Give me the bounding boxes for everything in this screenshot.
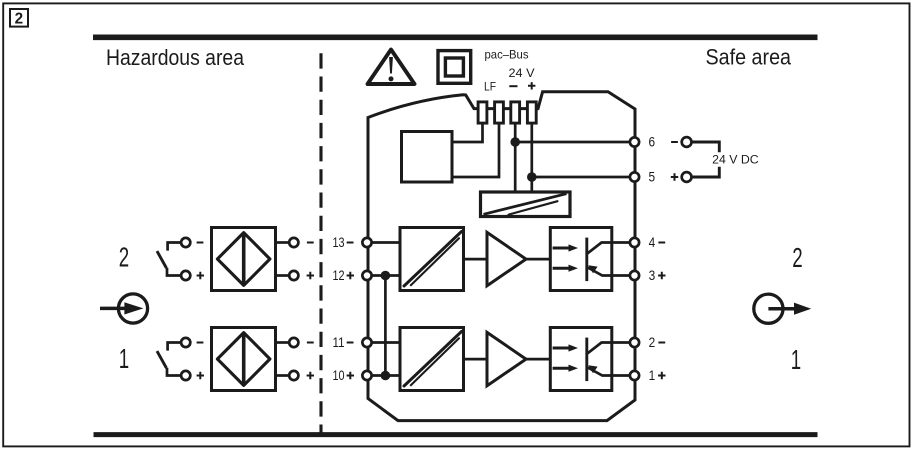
wire sensor out top channel 1	[276, 341, 290, 344]
isolation transformer block channel 2	[400, 228, 464, 291]
svg-text:3: 3	[649, 268, 656, 283]
svg-text:2: 2	[15, 11, 24, 28]
svg-text:Hazardous area: Hazardous area	[106, 45, 245, 70]
wire amplifier to output coupler channel 2	[526, 258, 550, 261]
pac-Bus pin 1	[478, 102, 487, 123]
wire pin4 (24V plus) to supply	[530, 123, 533, 192]
warning triangle symbol	[368, 50, 415, 85]
optocoupler output block channel 1	[550, 328, 612, 391]
output flow symbol (arrow out of circle)	[754, 294, 783, 323]
terminal 11	[362, 338, 371, 347]
light arrow upper channel 2	[553, 247, 570, 250]
wire vertical bus terminal 12 to terminal 10	[384, 276, 387, 376]
wire isolator to amplifier channel 1	[464, 358, 488, 361]
label plus pin 4	[528, 82, 535, 89]
polarity minus sensor out channel 2	[307, 242, 314, 244]
optocoupler output block channel 2	[550, 228, 612, 291]
svg-text:24 V DC: 24 V DC	[712, 154, 759, 166]
polarity plus switch channel 1	[197, 372, 204, 379]
figure number box 2	[10, 9, 28, 27]
svg-text:10: 10	[333, 368, 345, 383]
wire terminal in top to isolator channel 1	[367, 341, 400, 344]
phototransistor base bar channel 1	[585, 338, 588, 382]
terminal 10	[362, 371, 371, 380]
NAMUR sensor block channel 1	[212, 328, 276, 391]
light arrow lower channel 2	[553, 267, 570, 270]
isolator device body outline	[368, 92, 635, 421]
svg-text:2: 2	[792, 242, 802, 273]
wire node to terminal 5	[532, 176, 635, 179]
wire terminal in top to isolator channel 2	[367, 241, 400, 244]
wire collector to terminal channel 2	[587, 243, 635, 254]
svg-text:13: 13	[333, 235, 345, 250]
wire amplifier to output coupler channel 1	[526, 358, 550, 361]
pac-Bus pin 4	[527, 102, 536, 123]
wire emitter to terminal channel 1	[587, 367, 635, 376]
switch terminal plus channel 1	[181, 371, 190, 380]
amplifier triangle channel 1	[487, 332, 526, 385]
supply terminal plus	[682, 172, 692, 182]
polarity plus sensor out channel 1	[307, 372, 314, 379]
svg-text:11: 11	[333, 335, 345, 350]
wire emitter to terminal channel 2	[587, 267, 635, 276]
svg-text:1: 1	[791, 344, 801, 375]
polarity plus left	[347, 372, 354, 379]
svg-text:6: 6	[649, 135, 656, 150]
pac-Bus pin 2	[495, 102, 504, 123]
amplifier triangle channel 2	[487, 232, 526, 285]
hazardous/safe area top boundary line	[93, 34, 818, 40]
supply terminal minus	[682, 137, 692, 147]
sensor out terminal minus channel 2	[289, 238, 298, 247]
terminal 1	[630, 371, 639, 380]
switch terminal minus channel 2	[181, 238, 190, 247]
label minus pin 3	[509, 85, 517, 87]
wire supply plus	[692, 167, 720, 177]
NAMUR centre bar channel 2	[242, 233, 246, 285]
polarity minus switch channel 2	[197, 242, 204, 244]
svg-text:2: 2	[649, 335, 656, 350]
power supply block with isolation slash	[481, 192, 571, 217]
polarity plus right	[658, 272, 665, 279]
light arrow lower channel 1	[553, 367, 570, 370]
LF filter block	[402, 132, 453, 183]
wire supply minus	[692, 142, 720, 152]
svg-text:4: 4	[649, 235, 656, 250]
pac-Bus pin 3	[511, 102, 520, 123]
svg-text:Safe area: Safe area	[706, 44, 792, 69]
svg-text:pac–Bus: pac–Bus	[485, 48, 529, 62]
wire pin1 to LF block	[452, 123, 483, 142]
terminal 2	[630, 338, 639, 347]
switch terminal minus channel 1	[181, 338, 190, 347]
wire pin2 to LF block	[452, 123, 499, 177]
svg-text:1: 1	[119, 343, 129, 374]
terminal 4	[630, 238, 639, 247]
emitter arrow channel 1	[588, 365, 597, 373]
junction pin3/terminal6	[510, 137, 520, 147]
wire pin3 (24V minus) to supply	[514, 123, 517, 192]
polarity plus right	[658, 372, 665, 379]
isolation transformer block channel 1	[400, 328, 464, 391]
polarity minus right	[658, 342, 665, 344]
light arrow upper channel 1	[553, 347, 570, 350]
hazardous/safe area bottom boundary line	[94, 432, 818, 437]
wire sensor out bottom channel 2	[276, 274, 290, 277]
svg-text:24 V: 24 V	[509, 66, 535, 80]
svg-text:2: 2	[119, 241, 129, 272]
terminal 5	[630, 172, 639, 181]
NAMUR centre bar channel 1	[242, 333, 246, 385]
polarity minus right	[658, 242, 665, 244]
switch terminal plus channel 2	[181, 271, 190, 280]
terminal 13	[362, 238, 371, 247]
wire collector to terminal channel 1	[587, 343, 635, 354]
polarity plus switch channel 2	[197, 272, 204, 279]
polarity minus switch channel 1	[197, 342, 204, 344]
area separation dashed line	[319, 53, 322, 433]
phototransistor base bar channel 2	[585, 238, 588, 282]
NAMUR diamond channel 2	[217, 233, 270, 286]
terminal 6	[630, 137, 639, 146]
wire sensor out bottom channel 1	[276, 374, 290, 377]
svg-text:LF: LF	[484, 80, 496, 94]
switch contact channel 2	[168, 243, 185, 251]
junction bus channel 2	[381, 271, 391, 281]
NAMUR sensor block channel 2	[212, 228, 276, 291]
terminal 3	[630, 271, 639, 280]
sensor out terminal plus channel 2	[289, 271, 298, 280]
wire terminal in bottom to isolator channel 1	[367, 374, 400, 377]
polarity minus sensor out channel 1	[307, 342, 314, 344]
svg-text:5: 5	[649, 170, 656, 185]
sensor out terminal plus channel 1	[289, 371, 298, 380]
wire node to terminal 6	[515, 141, 635, 144]
wire terminal in bottom to isolator channel 2	[367, 274, 400, 277]
protection class II double-square symbol	[438, 51, 471, 84]
junction bus channel 1	[381, 371, 391, 381]
polarity minus supply	[671, 141, 678, 143]
wire sensor out top channel 2	[276, 241, 290, 244]
polarity minus left	[347, 342, 354, 344]
input flow symbol (arrow into circle)	[118, 294, 147, 323]
polarity plus left	[347, 272, 354, 279]
switch contact channel 1	[168, 343, 185, 351]
sensor out terminal minus channel 1	[289, 338, 298, 347]
wire isolator to amplifier channel 2	[464, 258, 488, 261]
terminal 12	[362, 271, 371, 280]
svg-text:1: 1	[649, 368, 656, 383]
NAMUR diamond channel 1	[217, 333, 270, 386]
polarity plus sensor out channel 2	[307, 272, 314, 279]
svg-text:12: 12	[333, 268, 345, 283]
polarity plus supply	[671, 173, 678, 180]
junction pin4/terminal5	[527, 172, 537, 182]
polarity minus left	[347, 242, 354, 244]
emitter arrow channel 2	[588, 265, 597, 273]
